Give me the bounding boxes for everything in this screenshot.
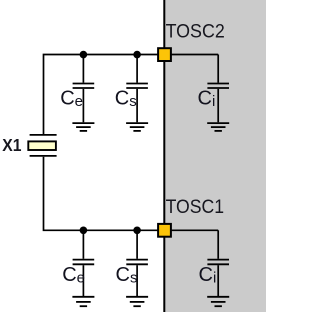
capacitor Ci (bottom) — [207, 230, 229, 296]
ground (under Cs top) — [126, 123, 148, 131]
capacitor Ce (top) — [73, 55, 95, 123]
wire: X1 top lead to TOSC2 pin — [44, 55, 158, 135]
node: junction dot at Ce (top) — [80, 51, 88, 59]
crystal X1 — [28, 135, 56, 156]
svg-text:Ce: Ce — [62, 264, 85, 287]
pin TOSC1 (square pad) — [158, 224, 171, 237]
ground (under Ce bottom) — [72, 297, 94, 306]
wire: TOSC1 pin to Ci (bottom) — [172, 229, 219, 231]
wire: X1 bottom lead to TOSC1 pin — [44, 157, 158, 231]
capacitor Cs (top) — [126, 55, 148, 123]
ground (under Ci bottom) — [207, 297, 229, 306]
ground (under Cs bottom) — [126, 297, 148, 306]
svg-text:Ce: Ce — [60, 88, 83, 111]
svg-text:TOSC2: TOSC2 — [166, 21, 225, 43]
capacitor Ci (top) — [207, 55, 229, 123]
svg-text:Cs: Cs — [116, 264, 138, 287]
capacitor Cs (bottom) — [126, 230, 148, 296]
MCU package region (gray) — [164, 0, 266, 312]
capacitor Ce (bottom) — [73, 230, 95, 296]
node: junction dot at Cs (bottom) — [133, 227, 141, 235]
node: junction dot at Cs (top) — [133, 51, 141, 59]
svg-text:X1: X1 — [2, 135, 21, 155]
wire: TOSC2 pin to Ci (top) — [172, 54, 219, 56]
svg-text:TOSC1: TOSC1 — [166, 196, 225, 218]
ground (under Ci top) — [207, 123, 229, 131]
node: junction dot at Ce (bottom) — [80, 227, 88, 235]
svg-text:Cs: Cs — [115, 88, 137, 111]
MCU package edge — [163, 0, 165, 312]
pin TOSC2 (square pad) — [158, 48, 171, 61]
ground (under Ce top) — [72, 123, 94, 131]
